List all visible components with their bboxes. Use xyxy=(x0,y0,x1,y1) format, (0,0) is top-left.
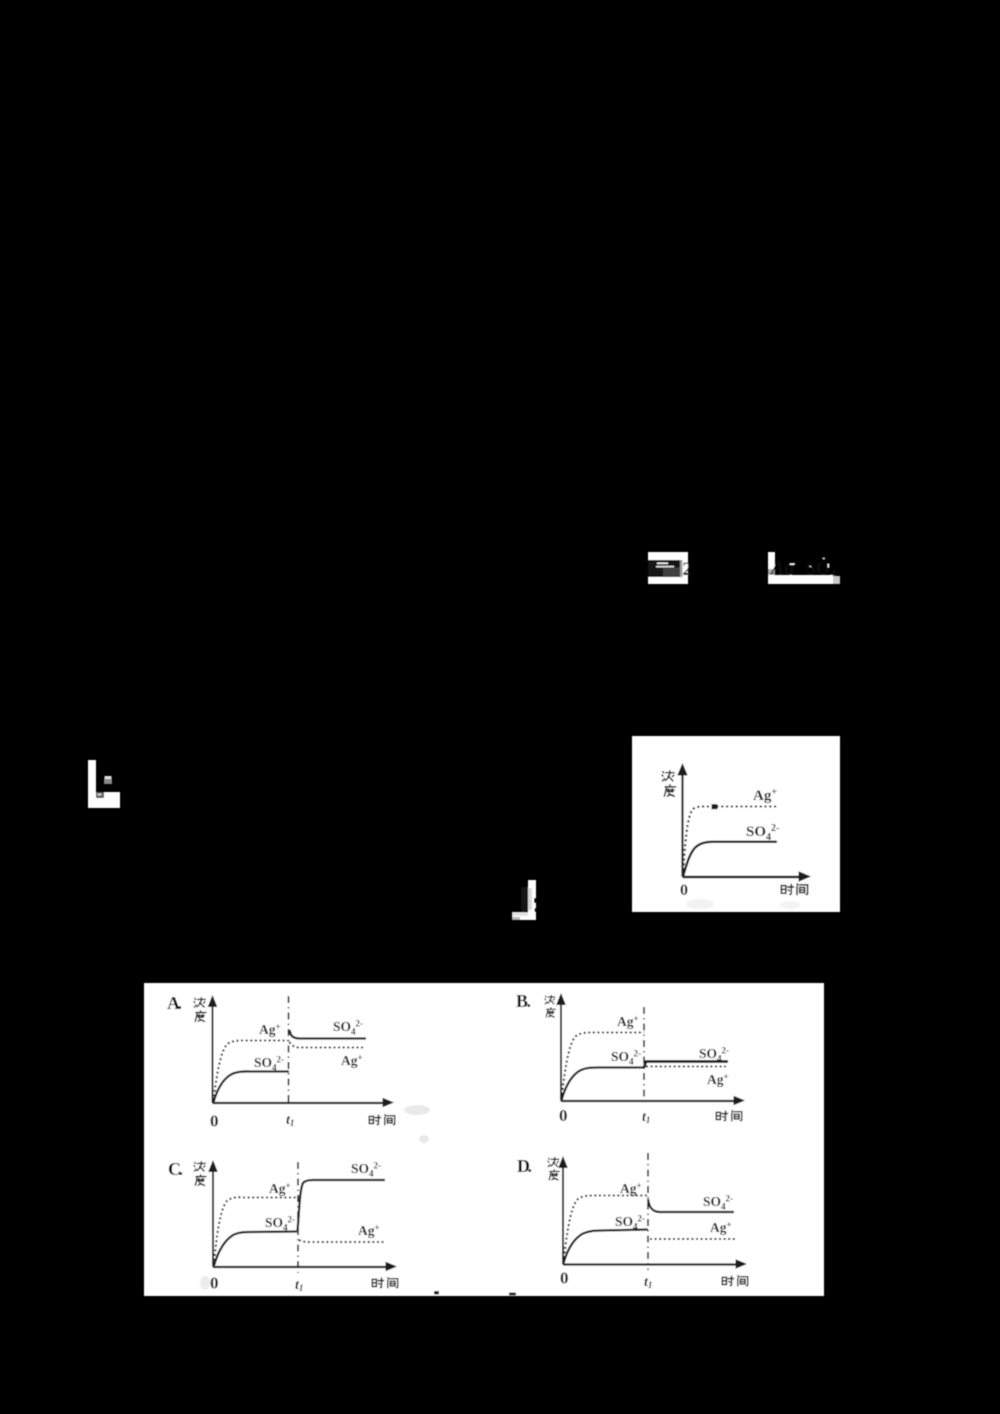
svg-text:0: 0 xyxy=(559,1106,568,1125)
x label 时间 xyxy=(372,1278,383,1287)
y-axis xyxy=(560,1004,562,1101)
faint ghost xyxy=(200,1276,210,1290)
y-axis label 浓度 xyxy=(548,1158,559,1167)
svg-text:A.: A. xyxy=(167,993,182,1013)
chart C xyxy=(168,1159,398,1293)
curve SO4 solid pre xyxy=(564,1230,649,1264)
x-axis label 时间 xyxy=(781,884,793,894)
svg-text:0: 0 xyxy=(680,882,688,899)
y-axis label 浓度 xyxy=(545,995,555,1003)
curve Ag+ dashed xyxy=(683,807,777,876)
blob on dashed curve xyxy=(712,804,718,809)
x label 时间 xyxy=(716,1111,727,1120)
t1 dash-dot line xyxy=(288,996,290,1103)
x label 时间 xyxy=(722,1276,733,1285)
faint smudges xyxy=(686,899,714,909)
faint smudges xyxy=(404,1105,430,1115)
y-axis xyxy=(212,1006,214,1103)
fragment: equation remnant "=2" xyxy=(648,552,692,584)
svg-text:0: 0 xyxy=(210,1274,219,1293)
y-axis xyxy=(681,774,683,877)
curve Ag+ dashed pre xyxy=(562,1033,645,1100)
chart B xyxy=(516,991,745,1125)
y-axis xyxy=(562,1167,564,1265)
y-axis label 浓度 xyxy=(194,1162,205,1171)
y-axis label 浓度 xyxy=(194,998,205,1007)
curve Ag+ dashed post xyxy=(646,1066,726,1068)
top-right chart panel xyxy=(632,736,840,912)
curve SO4 solid pre xyxy=(562,1067,645,1100)
curve SO4 solid pre xyxy=(214,1071,290,1102)
dark marks on box bottom edge xyxy=(434,1291,439,1295)
curve SO4 solid xyxy=(683,842,777,877)
y-axis xyxy=(212,1171,214,1267)
chart D xyxy=(517,1153,748,1290)
curve Ag+ dashed pre xyxy=(214,1041,289,1102)
x-axis xyxy=(563,1263,737,1265)
curve Ag+ dashed pre xyxy=(564,1196,649,1263)
curve Ag+ dashed post xyxy=(290,1042,365,1048)
t1 dash-dot line xyxy=(297,1162,299,1273)
curve SO4 solid post xyxy=(290,1030,367,1039)
fragment: Ag2SO4 formula remnant xyxy=(768,552,840,584)
curve SO4 solid post xyxy=(648,1199,734,1212)
svg-text:B.: B. xyxy=(516,991,531,1011)
chart A xyxy=(167,993,430,1143)
fragment: character remnant mid page xyxy=(512,880,536,920)
x-axis xyxy=(683,876,802,878)
curve Ag+ dashed pre xyxy=(214,1197,298,1265)
curve Ag+ dashed post xyxy=(650,1238,735,1240)
x-axis xyxy=(213,1102,385,1104)
svg-text:2: 2 xyxy=(683,559,693,580)
t1 dash-dot line xyxy=(643,1007,645,1104)
curve SO4 solid post xyxy=(644,1062,728,1068)
svg-text:C.: C. xyxy=(168,1159,183,1179)
white panel xyxy=(632,736,840,912)
x label 时间 xyxy=(369,1115,380,1124)
t1 dash-dot line xyxy=(647,1153,649,1270)
svg-text:0: 0 xyxy=(210,1112,219,1131)
x-axis xyxy=(213,1266,387,1268)
y-axis label 浓度 xyxy=(662,771,674,781)
curve Ag+ dashed post xyxy=(299,1240,385,1242)
fragment: L-shaped text remnant left margin xyxy=(88,760,120,808)
x-axis xyxy=(561,1100,735,1102)
svg-text:0: 0 xyxy=(560,1269,569,1288)
curve SO4 solid post xyxy=(298,1180,386,1231)
answer options panel (big white box) xyxy=(144,983,824,1296)
svg-text:D.: D. xyxy=(517,1156,532,1176)
curve SO4 solid pre xyxy=(214,1232,297,1266)
